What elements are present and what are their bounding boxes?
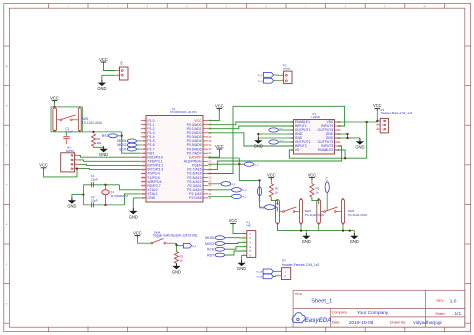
svg-text:Header-Male-2.54_1x3: Header-Male-2.54_1x3 bbox=[381, 111, 413, 115]
svg-text:VCC: VCC bbox=[215, 103, 224, 108]
svg-text:1.0: 1.0 bbox=[450, 299, 457, 305]
svg-text:1: 1 bbox=[75, 154, 76, 156]
svg-text:VCC: VCC bbox=[229, 218, 238, 223]
svg-text:Drawn By:: Drawn By: bbox=[390, 321, 406, 325]
svg-text:1k: 1k bbox=[316, 190, 320, 194]
svg-text:m_1: m_1 bbox=[242, 197, 247, 199]
svg-text:VCC: VCC bbox=[50, 95, 59, 100]
svg-text:P3: P3 bbox=[282, 259, 286, 263]
svg-text:2019-10-06: 2019-10-06 bbox=[349, 320, 374, 326]
svg-text:Sheet:: Sheet: bbox=[435, 312, 445, 316]
svg-text:Your Company: Your Company bbox=[357, 310, 389, 316]
svg-text:GND: GND bbox=[172, 269, 181, 274]
svg-text:GND: GND bbox=[355, 145, 364, 150]
svg-text:RST: RST bbox=[207, 253, 215, 257]
svg-text:MF50: MF50 bbox=[66, 149, 74, 153]
svg-text:VCC: VCC bbox=[215, 144, 224, 149]
svg-text:1/1: 1/1 bbox=[455, 311, 462, 317]
svg-text:Toggle Switches(SK-12F14 D6): Toggle Switches(SK-12F14 D6) bbox=[153, 234, 197, 238]
svg-text:m_3: m_3 bbox=[254, 165, 259, 167]
svg-text:EasyEDA: EasyEDA bbox=[305, 318, 332, 324]
svg-text:a_1: a_1 bbox=[192, 245, 197, 248]
svg-text:TITLE:: TITLE: bbox=[294, 292, 303, 296]
svg-text:11.0592MHZ: 11.0592MHZ bbox=[110, 194, 128, 198]
svg-text:STC89C51RC-40-PDI: STC89C51RC-40-PDI bbox=[170, 110, 197, 114]
svg-text:GND: GND bbox=[254, 144, 263, 149]
svg-text:GND: GND bbox=[302, 239, 311, 244]
svg-text:VS: VS bbox=[295, 148, 300, 152]
svg-text:P5: P5 bbox=[119, 61, 123, 65]
svg-text:m_1: m_1 bbox=[258, 74, 263, 77]
svg-text:P2.0/A8: P2.0/A8 bbox=[189, 196, 202, 200]
svg-text:1: 1 bbox=[278, 270, 279, 272]
svg-text:m_3: m_3 bbox=[258, 197, 260, 202]
svg-text:motor: motor bbox=[283, 67, 290, 71]
svg-text:3: 3 bbox=[377, 128, 378, 130]
svg-text:HW: HW bbox=[247, 223, 252, 227]
svg-text:VCC: VCC bbox=[39, 163, 48, 168]
svg-text:1k: 1k bbox=[275, 190, 279, 194]
svg-text:2: 2 bbox=[377, 123, 378, 125]
svg-text:22pF: 22pF bbox=[91, 199, 98, 203]
svg-text:TS-1102-4316: TS-1102-4316 bbox=[348, 213, 368, 217]
svg-text:TS-1102-4316: TS-1102-4316 bbox=[82, 121, 102, 125]
svg-text:MOSI: MOSI bbox=[205, 236, 214, 240]
svg-text:VCC: VCC bbox=[99, 57, 108, 62]
svg-text:m_1: m_1 bbox=[260, 208, 265, 210]
svg-text:VCC: VCC bbox=[267, 172, 276, 177]
svg-text:ENABLE2: ENABLE2 bbox=[318, 148, 333, 152]
svg-text:GND: GND bbox=[97, 86, 106, 91]
svg-text:Company:: Company: bbox=[332, 311, 348, 315]
svg-text:GND: GND bbox=[350, 239, 359, 244]
svg-text:G: G bbox=[6, 303, 8, 305]
svg-text:GND: GND bbox=[67, 204, 76, 209]
svg-text:2: 2 bbox=[75, 158, 76, 160]
svg-text:VCC: VCC bbox=[373, 103, 382, 108]
svg-text:GND: GND bbox=[99, 152, 108, 157]
svg-text:RST: RST bbox=[102, 134, 110, 138]
svg-text:GND: GND bbox=[147, 196, 155, 200]
svg-text:GND: GND bbox=[129, 214, 138, 219]
svg-text:10k: 10k bbox=[96, 141, 101, 145]
svg-text:2: 2 bbox=[278, 274, 279, 276]
svg-text:1k: 1k bbox=[179, 258, 183, 262]
svg-text:L293D: L293D bbox=[312, 115, 320, 119]
svg-text:22pF: 22pF bbox=[91, 178, 98, 182]
svg-text:TS-1102-4316: TS-1102-4316 bbox=[305, 213, 325, 217]
svg-text:VCC: VCC bbox=[308, 172, 317, 177]
svg-text:1: 1 bbox=[282, 74, 283, 76]
svg-text:Sheet_1: Sheet_1 bbox=[311, 298, 332, 304]
svg-text:SCK: SCK bbox=[207, 248, 215, 252]
svg-text:SCK: SCK bbox=[119, 147, 127, 151]
svg-text:VCC: VCC bbox=[133, 230, 142, 235]
svg-text:m_2a: m_2a bbox=[256, 276, 263, 279]
svg-text:2: 2 bbox=[282, 79, 283, 81]
svg-text:m_1a: m_1a bbox=[256, 271, 263, 274]
svg-text:REV:: REV: bbox=[437, 299, 445, 303]
svg-text:m_2: m_2 bbox=[242, 190, 247, 192]
svg-text:3: 3 bbox=[75, 163, 76, 165]
svg-text:Header-Female-2.54_1x2: Header-Female-2.54_1x2 bbox=[282, 263, 320, 267]
svg-text:m_2: m_2 bbox=[258, 80, 263, 83]
svg-text:vidyadharjogi: vidyadharjogi bbox=[413, 320, 441, 326]
svg-text:Date:: Date: bbox=[332, 321, 340, 325]
svg-text:GND: GND bbox=[237, 266, 246, 271]
svg-text:MISO: MISO bbox=[205, 242, 214, 246]
